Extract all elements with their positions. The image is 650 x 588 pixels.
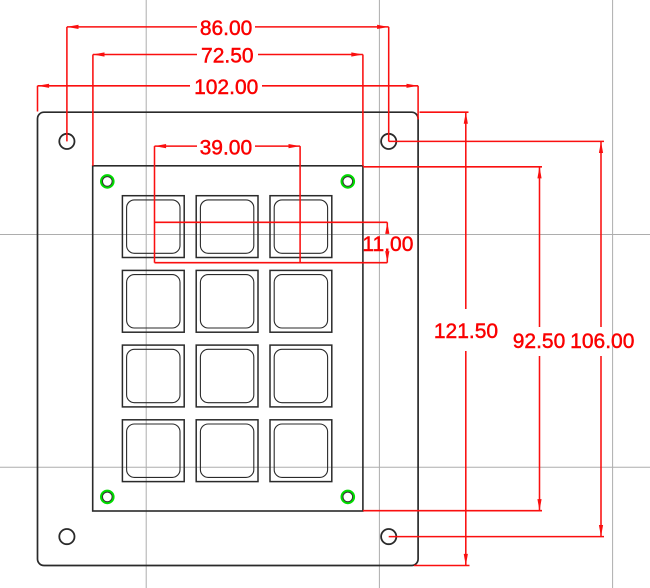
key button K3 (row 1, col 3) — [270, 196, 332, 258]
key button K4 (row 2, col 1) — [122, 270, 184, 332]
grid vline 1 — [145, 0, 147, 588]
key button K10 (row 4, col 1) — [122, 420, 184, 482]
mounting hole H4 bottom-right — [381, 529, 396, 544]
key button K2 (row 1, col 2) — [196, 196, 258, 258]
key button K8 (row 3, col 2) — [196, 345, 258, 407]
key button K12 (row 4, col 3) — [270, 420, 332, 482]
svg-text:121.50: 121.50 — [434, 320, 498, 343]
dim 86.00 line — [67, 17, 389, 141]
key button K9 (row 3, col 3) — [270, 345, 332, 407]
screw hole S1 top-left (green) — [101, 175, 113, 187]
svg-text:11.00: 11.00 — [362, 233, 413, 256]
dim 106.00 line — [389, 141, 635, 536]
dim 121.50 line — [414, 112, 498, 565]
grid hline 2 — [0, 466, 650, 468]
svg-text:72.50: 72.50 — [201, 45, 254, 68]
svg-text:92.50: 92.50 — [513, 330, 566, 353]
keypad frame — [93, 166, 363, 511]
svg-text:106.00: 106.00 — [570, 330, 634, 353]
grid hline 1 — [0, 234, 650, 236]
key button K11 (row 4, col 2) — [196, 420, 258, 482]
grid vline 3 — [612, 0, 614, 588]
screw hole S3 bottom-left (green) — [101, 491, 113, 503]
mounting hole H3 bottom-left — [59, 529, 74, 544]
svg-text:39.00: 39.00 — [200, 136, 253, 159]
svg-text:102.00: 102.00 — [194, 76, 258, 99]
mounting hole H2 top-right — [381, 134, 396, 149]
dim 39.00 line — [155, 136, 301, 262]
grid vline 2 — [378, 0, 380, 588]
key button K1 (row 1, col 1) — [122, 196, 184, 258]
dim 102.00 line — [38, 76, 419, 120]
screw hole S4 bottom-right (green) — [342, 491, 354, 503]
key button K5 (row 2, col 2) — [196, 270, 258, 332]
key button K7 (row 3, col 1) — [122, 345, 184, 407]
dim 92.50 line — [363, 167, 565, 511]
dim 11.00 line — [155, 222, 414, 262]
dim 72.50 line — [93, 45, 363, 166]
svg-text:86.00: 86.00 — [200, 17, 253, 40]
key button K6 (row 2, col 3) — [270, 270, 332, 332]
screw hole S2 top-right (green) — [342, 175, 354, 187]
mounting hole H1 top-left — [59, 134, 74, 149]
panel outline — [38, 112, 419, 565]
